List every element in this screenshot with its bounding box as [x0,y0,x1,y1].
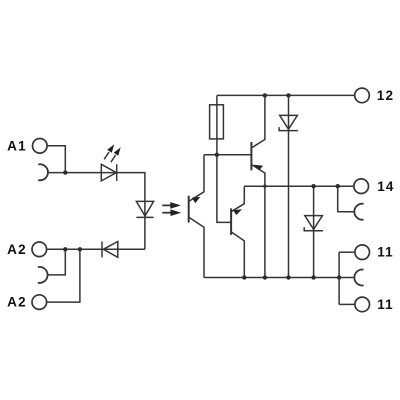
wire to 11 first circle [339,251,355,253]
transistor Q1 base bar [250,142,252,170]
wire base node row [204,154,251,156]
wire bottom rail [204,277,339,279]
svg-text:14: 14 [377,179,394,194]
svg-text:12: 12 [377,88,394,103]
junction A2 node 1 [63,247,67,251]
transistor Q2 base bar [230,208,232,235]
phototransistor emitter [189,155,204,201]
LED indicator cathode bar [116,164,118,181]
diode D1 body [103,242,118,258]
terminal A2 socket hook [38,267,48,283]
zener Z2 wire [313,186,315,277]
transistor Q2 emitter [232,186,245,211]
junction Q1 emitter on 14 wire [263,185,266,188]
diode D1 cathode bar [101,242,103,258]
junction fuse bottom node [215,153,219,157]
junction top rail zener Z1 [286,93,290,97]
zener Z1 wire [288,95,290,277]
svg-text:11: 11 [377,297,394,312]
fuse F1 body [210,105,224,139]
phototransistor base bar [188,196,190,223]
svg-text:A2: A2 [7,295,27,310]
terminal 12 circle [355,88,370,103]
transistor Q2 base wire [217,155,231,223]
optocoupler light arrow upper [162,202,181,209]
junction A1 node [63,170,67,174]
terminal 11 second circle [355,297,370,312]
phototransistor emitter arrow [192,197,201,203]
junction bottom rail zener Z2 [311,275,315,279]
svg-text:A1: A1 [7,138,27,153]
junction bottom rail zener Z1 [286,275,290,279]
wire top rail to terminal 12 [217,94,355,96]
junction 11 node [337,275,341,279]
zener Z2 cathode bar [304,227,323,231]
wire 11 branch vertical [338,252,340,304]
wire 14 node to hook [338,186,355,212]
wire to 11 hook [339,277,354,279]
optocoupler light arrow lower [162,209,181,216]
junction Z2 top on 14 wire [311,184,315,188]
svg-text:11: 11 [377,245,394,260]
zener Z1 body [280,115,298,129]
junction 14 node [336,184,340,188]
wire D1 to A2 [47,248,102,250]
terminal A2 second circle [32,295,47,310]
wire A2 hook to node [47,249,65,275]
phototransistor collector [189,218,204,278]
junction bottom rail Q2 collector [242,275,246,279]
terminal 14 socket hook [354,204,363,220]
junction A2 node 2 [78,247,82,251]
transistor Q1 emitter [252,165,265,278]
zener Z1 cathode bar [279,127,298,131]
transistor Q1 collector [252,95,265,147]
LED indicator light arrow 1 [104,144,114,159]
junction top rail Q1 collector [263,93,267,97]
svg-text:A2: A2 [7,242,27,257]
optocoupler LED body [136,201,153,216]
terminal 11 first circle [355,245,370,260]
terminal A1 socket hook [38,164,48,180]
fuse F1 vertical wire [216,95,218,154]
terminal A2 circle [32,242,47,257]
wire to 11 second circle [339,303,355,305]
LED indicator diode body [101,164,116,181]
wire optocoupler to D1 to A2 [47,248,145,250]
LED indicator light arrow 2 [111,147,121,162]
transistor Q2 collector [232,232,245,277]
wire 14 row [244,185,353,187]
zener Z2 body [305,216,323,230]
wire A1 circle to node [47,146,65,173]
wire A2 second to node [47,249,80,302]
terminal 11 socket hook [354,270,363,286]
junction bottom rail Q1 emitter [263,275,267,279]
transistor Q2 emitter arrow [233,209,242,215]
optocoupler LED cathode bar [136,216,153,218]
transistor Q1 emitter arrow [254,165,264,171]
wire A1 hook through LED to optocoupler [47,173,145,250]
terminal 14 circle [354,179,369,194]
terminal A1 circle [33,139,48,154]
